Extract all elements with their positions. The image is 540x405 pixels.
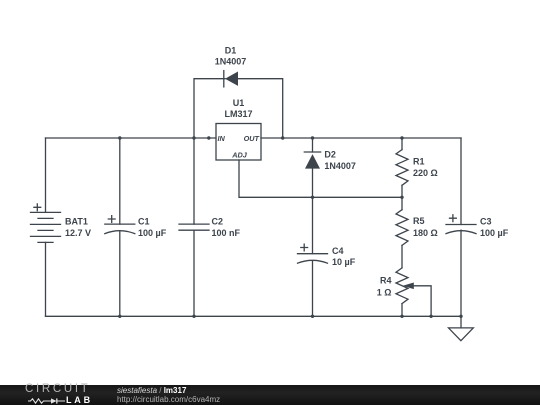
svg-text:C1: C1 [138, 217, 150, 227]
svg-text:12.7 V: 12.7 V [65, 228, 91, 238]
svg-text:1 Ω: 1 Ω [377, 288, 392, 298]
svg-text:C4: C4 [332, 246, 344, 256]
svg-text:100 µF: 100 µF [138, 228, 167, 238]
svg-text:1N4007: 1N4007 [215, 57, 247, 67]
svg-text:1N4007: 1N4007 [324, 161, 356, 171]
svg-text:LM317: LM317 [224, 109, 252, 119]
svg-text:100 µF: 100 µF [480, 228, 509, 238]
svg-text:IN: IN [218, 134, 226, 143]
svg-text:ADJ: ADJ [231, 150, 248, 159]
svg-text:10 µF: 10 µF [332, 257, 356, 267]
svg-text:220 Ω: 220 Ω [413, 168, 438, 178]
svg-text:R1: R1 [413, 157, 425, 167]
svg-text:C3: C3 [480, 217, 492, 227]
svg-text:R5: R5 [413, 216, 425, 226]
svg-text:R4: R4 [380, 276, 392, 286]
svg-text:D2: D2 [324, 149, 336, 159]
svg-text:OUT: OUT [244, 134, 260, 143]
svg-text:180 Ω: 180 Ω [413, 228, 438, 238]
svg-text:100 nF: 100 nF [212, 228, 241, 238]
svg-text:D1: D1 [225, 46, 237, 56]
svg-text:U1: U1 [233, 98, 245, 108]
svg-text:BAT1: BAT1 [65, 216, 88, 226]
svg-text:C2: C2 [212, 217, 224, 227]
